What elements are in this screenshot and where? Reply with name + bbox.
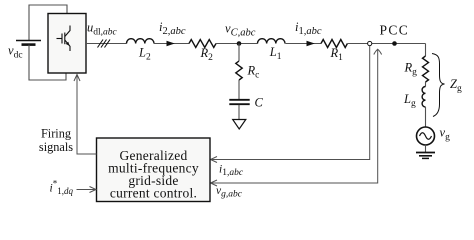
svg-text:current control.: current control. bbox=[110, 185, 197, 200]
svg-text:PCC: PCC bbox=[380, 23, 410, 38]
resistor Rc bbox=[236, 61, 242, 80]
ground (capacitor, open triangle) bbox=[233, 120, 246, 130]
node measurement tap (open circle) bbox=[368, 41, 372, 45]
wire: Rc to capacitor bbox=[238, 80, 240, 99]
ground (grid) bbox=[416, 153, 435, 159]
wire: ac source to ground bbox=[425, 145, 427, 152]
inverter box bbox=[48, 14, 86, 74]
ac source v_g bbox=[417, 127, 435, 145]
resistor R2 bbox=[189, 40, 216, 48]
wire: grid branch down bbox=[425, 44, 427, 57]
dc source v_dc bbox=[16, 41, 41, 45]
wire: dc source top lead bbox=[29, 5, 67, 41]
inductor Lg bbox=[422, 87, 425, 107]
current arrow i_2,abc bbox=[167, 41, 175, 47]
wire: inverter output to L2 bbox=[86, 43, 127, 45]
measurement arrow v_g,abc bbox=[212, 50, 378, 183]
wire: Lg to ac source bbox=[425, 107, 427, 127]
firing signals wire bbox=[77, 76, 97, 155]
transistor IGBT bbox=[57, 26, 71, 52]
wire: R2 to L1 bbox=[216, 43, 258, 45]
feedback wire i_1,abc bbox=[212, 46, 370, 160]
wire: dc source bottom lead bbox=[29, 45, 66, 80]
svg-text:signals: signals bbox=[39, 140, 73, 154]
node PCC (junction dot) bbox=[392, 41, 397, 46]
inductor L2 bbox=[127, 39, 154, 44]
label Firing signals bbox=[39, 127, 73, 155]
wire: L1 to R1 bbox=[286, 43, 322, 45]
current arrow i_1,abc bbox=[307, 41, 315, 47]
svg-text:Firing: Firing bbox=[41, 127, 71, 141]
control block text bbox=[108, 148, 199, 200]
capacitor C bbox=[229, 100, 249, 104]
resistor Rg bbox=[423, 56, 429, 82]
node v_C,abc (junction dot) bbox=[237, 41, 242, 46]
resistor R1 bbox=[321, 40, 347, 48]
wire: Rg to Lg bbox=[425, 82, 427, 87]
inductor L1 bbox=[258, 39, 285, 44]
wire: vC node to Rc bbox=[238, 44, 240, 62]
wire: R1 to grid corner bbox=[348, 43, 426, 45]
wire: capacitor to ground bbox=[238, 105, 240, 120]
input arrow i*_1,dq bbox=[77, 189, 96, 191]
brace Zg bbox=[432, 54, 445, 117]
wire: L2 to R2 bbox=[154, 43, 189, 45]
three-phase slash marks bbox=[98, 40, 111, 48]
control block bbox=[97, 138, 211, 202]
svg-text:C: C bbox=[255, 96, 264, 110]
